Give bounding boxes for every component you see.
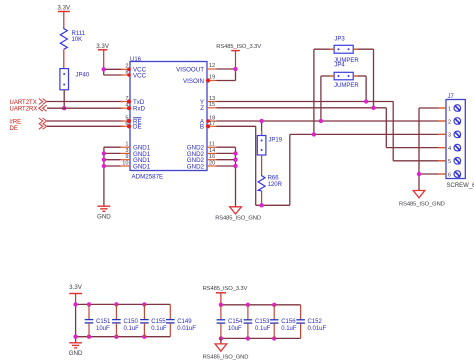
svg-text:12: 12 bbox=[209, 63, 215, 69]
svg-text:6: 6 bbox=[448, 172, 451, 178]
svg-text:C151: C151 bbox=[96, 319, 111, 325]
wire JP4 left to net A bbox=[321, 76, 334, 121]
power 3.3V (at U16 VCC) bbox=[96, 43, 110, 69]
junction on RxD net bbox=[62, 106, 66, 110]
svg-text:UART2TX: UART2TX bbox=[10, 100, 37, 106]
off-page UART2TX bbox=[10, 99, 47, 107]
J7 pin 5 bbox=[448, 158, 461, 166]
svg-text:SCREW_6: SCREW_6 bbox=[447, 183, 474, 189]
U16 right pin stubs bbox=[207, 69, 217, 166]
svg-text:4: 4 bbox=[448, 146, 451, 152]
svg-text:0.1uF: 0.1uF bbox=[124, 326, 140, 332]
U16 right pin numbers bbox=[209, 63, 215, 166]
wire JP40 to RxD net bbox=[63, 90, 65, 108]
junction pin12 tee bbox=[233, 67, 237, 71]
svg-text:JP40: JP40 bbox=[76, 73, 90, 79]
GND2 bus wires bbox=[217, 147, 236, 207]
U16 left pin stubs bbox=[121, 69, 131, 166]
J7 pin 6 bbox=[448, 171, 461, 179]
svg-text:20: 20 bbox=[209, 161, 215, 167]
wire pin12/pin19 to iso 3.3V bbox=[217, 69, 236, 81]
ground RS485_ISO_GND (mid) bbox=[215, 207, 261, 222]
J7 pin 2 bbox=[448, 118, 461, 126]
svg-text:0.1uF: 0.1uF bbox=[281, 326, 297, 332]
svg-text:13: 13 bbox=[209, 96, 215, 102]
svg-text:C155: C155 bbox=[151, 319, 166, 325]
ground GND (cap bank) bbox=[69, 343, 83, 357]
wire right bank bottom rail bbox=[221, 337, 301, 339]
svg-text:RS485_ISO_GND: RS485_ISO_GND bbox=[203, 355, 249, 361]
svg-text:VCC: VCC bbox=[133, 72, 147, 79]
J7 pin 3 bbox=[448, 131, 461, 139]
power 3.3V (left cap bank) bbox=[69, 284, 83, 304]
resistor R66 120R bbox=[258, 174, 283, 191]
svg-text:1: 1 bbox=[448, 106, 451, 112]
U16 pin connection dots bbox=[127, 68, 210, 129]
svg-text:GND1: GND1 bbox=[133, 163, 151, 170]
junctions GND2 bus bbox=[233, 151, 237, 168]
wire UART2RX to pin 4 bbox=[47, 107, 123, 109]
svg-text:3.3V: 3.3V bbox=[69, 284, 83, 291]
svg-text:JP3: JP3 bbox=[334, 37, 345, 43]
wire #RE to pin 5 bbox=[47, 120, 123, 122]
wire net Y (pin13 to right) bbox=[217, 102, 447, 161]
capacitor C156 0.1uF bbox=[270, 305, 297, 339]
wire iso ground to connector pins 1 and 6 bbox=[419, 108, 446, 191]
junctions right bank rails bbox=[219, 303, 277, 341]
svg-text:0.1uF: 0.1uF bbox=[255, 326, 271, 332]
svg-text:10uF: 10uF bbox=[96, 326, 110, 332]
junction JP19 on net A bbox=[259, 119, 263, 123]
svg-text:GND2: GND2 bbox=[187, 163, 205, 170]
resistor R111 10K bbox=[60, 27, 85, 49]
jumper JP4 bbox=[334, 63, 359, 90]
svg-text:C156: C156 bbox=[281, 319, 296, 325]
svg-text:ADM2587E: ADM2587E bbox=[132, 174, 164, 181]
svg-text:Z: Z bbox=[200, 105, 204, 112]
wire right bank gnd drop bbox=[220, 338, 222, 344]
RE overline bbox=[133, 117, 142, 119]
svg-text:UART2RX: UART2RX bbox=[10, 107, 38, 113]
svg-text:C150: C150 bbox=[124, 319, 139, 325]
junction VCC tee bbox=[102, 67, 106, 71]
wire UART2TX to pin 7 bbox=[47, 101, 123, 103]
svg-text:10: 10 bbox=[122, 161, 128, 167]
svg-text:10uF: 10uF bbox=[228, 326, 242, 332]
power RS485_ISO_3.3V (at U16) bbox=[216, 44, 261, 69]
wire DE to pin 6 bbox=[47, 125, 123, 127]
svg-text:C154: C154 bbox=[228, 319, 243, 325]
wire JP3 right to net Z bbox=[353, 49, 373, 108]
junctions GND1 bus bbox=[102, 151, 106, 168]
wire JP4 right to net Y bbox=[353, 76, 366, 102]
junction JP4-A bbox=[319, 119, 323, 123]
svg-text:GND: GND bbox=[69, 350, 83, 357]
J7 pin stubs bbox=[438, 108, 446, 174]
junction JP4-Y bbox=[364, 99, 368, 103]
capacitor C150 0.1uF bbox=[112, 304, 139, 336]
U16 right pin names bbox=[176, 66, 205, 170]
capacitor C151 10uF bbox=[85, 304, 111, 336]
svg-text:RxD: RxD bbox=[133, 106, 146, 113]
svg-text:GND: GND bbox=[97, 214, 111, 221]
op-amp U16 ADM2587E body bbox=[130, 57, 207, 181]
wire net Z (pin15 to right) bbox=[217, 108, 447, 148]
capacitor C152 0.01uF bbox=[296, 305, 326, 339]
J7 pin 4 bbox=[448, 144, 461, 152]
junction JP3-Z bbox=[371, 106, 375, 110]
svg-text:0.1uF: 0.1uF bbox=[151, 326, 167, 332]
junction pin6 gnd bbox=[417, 172, 421, 176]
jumper JP19 bbox=[257, 121, 282, 155]
wire net B (pin17 routed below R66 to connector pin3) bbox=[217, 126, 447, 205]
svg-text:RS485_ISO_3.3V: RS485_ISO_3.3V bbox=[203, 286, 248, 292]
jumper JP40 bbox=[60, 69, 90, 90]
GND1 bus wires bbox=[104, 147, 121, 206]
off-page #RE bbox=[10, 118, 47, 126]
junction JP3-B bbox=[312, 132, 316, 136]
svg-text:10K: 10K bbox=[72, 37, 83, 43]
capacitor C154 10uF bbox=[217, 305, 243, 339]
svg-text:DE: DE bbox=[133, 124, 142, 131]
svg-text:JP4: JP4 bbox=[334, 63, 345, 69]
wire JP19 to R66 bbox=[261, 155, 263, 174]
wire left bank gnd drop bbox=[75, 304, 77, 342]
svg-text:C153: C153 bbox=[255, 319, 270, 325]
wire R66 to net B bbox=[261, 191, 263, 205]
svg-text:3.3V: 3.3V bbox=[96, 43, 110, 50]
svg-text:11: 11 bbox=[209, 142, 215, 148]
jumper JP3 bbox=[334, 37, 359, 64]
svg-text:C149: C149 bbox=[177, 319, 192, 325]
svg-text:DE: DE bbox=[10, 126, 18, 132]
svg-text:1: 1 bbox=[125, 142, 128, 148]
connector J7 SCREW_6 bbox=[446, 94, 474, 189]
wire right bank top rail bbox=[221, 304, 301, 306]
svg-text:9: 9 bbox=[125, 154, 128, 160]
ground GND (left) bbox=[97, 206, 111, 220]
junction R66 on net B bbox=[259, 203, 263, 207]
U16 left pin names bbox=[133, 67, 151, 171]
capacitor C149 0.01uF bbox=[166, 304, 196, 336]
ground RS485_ISO_GND (cap bank) bbox=[203, 344, 249, 361]
U16 left pin numbers bbox=[122, 64, 128, 167]
capacitor C155 0.1uF bbox=[140, 304, 167, 336]
svg-text:C152: C152 bbox=[308, 319, 323, 325]
svg-text:14: 14 bbox=[209, 148, 215, 154]
svg-text:3: 3 bbox=[448, 133, 451, 139]
wire left bank top rail bbox=[76, 303, 171, 305]
J7 pin 1 bbox=[448, 105, 461, 113]
svg-text:16: 16 bbox=[209, 154, 215, 160]
svg-text:0.01uF: 0.01uF bbox=[177, 326, 196, 332]
power RS485_ISO_3.3V (right cap bank) bbox=[203, 286, 248, 305]
svg-text:RS485_ISO_3.3V: RS485_ISO_3.3V bbox=[216, 44, 261, 50]
wire VCC bus to pins 2 and 8 bbox=[104, 69, 123, 75]
svg-text:JP19: JP19 bbox=[268, 137, 282, 143]
svg-text:B: B bbox=[200, 124, 204, 131]
svg-text:3: 3 bbox=[125, 148, 128, 154]
svg-text:RS485_ISO_GND: RS485_ISO_GND bbox=[215, 216, 261, 222]
svg-text:VISOOUT: VISOOUT bbox=[176, 66, 204, 73]
wire net A (pin18 to connector pin2) bbox=[217, 120, 447, 122]
svg-text:JUMPER: JUMPER bbox=[334, 83, 359, 89]
off-page UART2RX bbox=[10, 105, 47, 112]
svg-text:120R: 120R bbox=[268, 182, 283, 188]
svg-text:VISOIN: VISOIN bbox=[183, 78, 204, 85]
capacitor C153 0.1uF bbox=[244, 305, 271, 339]
svg-text:2: 2 bbox=[448, 119, 451, 125]
svg-text:RS485_ISO_GND: RS485_ISO_GND bbox=[399, 202, 445, 208]
svg-text:R66: R66 bbox=[268, 176, 280, 182]
svg-text:3.3V: 3.3V bbox=[57, 5, 71, 12]
wire R111 to JP40 bbox=[63, 49, 65, 68]
svg-text:#RE: #RE bbox=[10, 120, 22, 126]
wire JP3 left to net B bbox=[314, 49, 334, 134]
svg-text:0.01uF: 0.01uF bbox=[308, 326, 327, 332]
off-page DE bbox=[10, 123, 47, 132]
wire left bank bottom rail bbox=[76, 336, 171, 338]
ground RS485_ISO_GND (right) bbox=[399, 191, 445, 208]
svg-text:15: 15 bbox=[209, 102, 215, 108]
power 3.3V (top left) bbox=[57, 5, 71, 28]
svg-text:5: 5 bbox=[448, 159, 451, 165]
junctions left bank rails bbox=[73, 302, 146, 339]
